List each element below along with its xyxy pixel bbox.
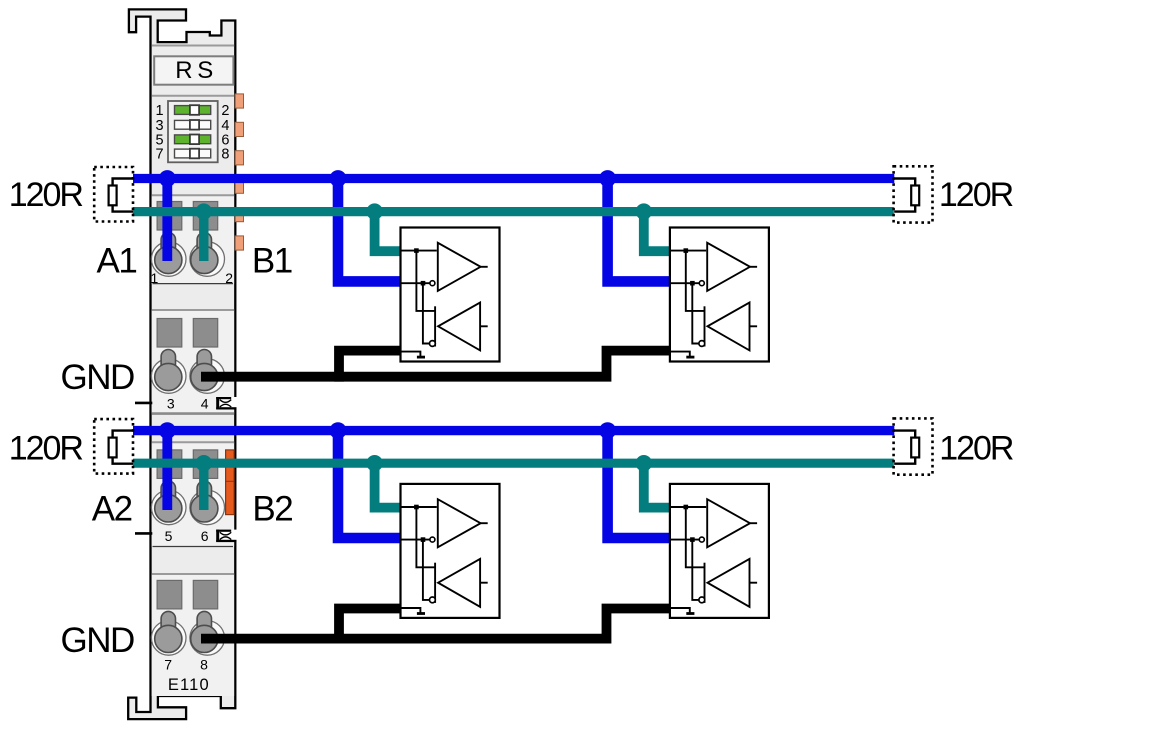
svg-text:1: 1	[155, 103, 163, 119]
svg-text:8: 8	[200, 656, 208, 672]
svg-text:GND: GND	[61, 621, 135, 660]
svg-text:5: 5	[165, 528, 173, 544]
svg-text:R S: R S	[175, 57, 212, 84]
svg-text:A1: A1	[97, 241, 137, 280]
svg-text:2: 2	[225, 270, 233, 286]
svg-text:1: 1	[151, 270, 159, 286]
svg-text:8: 8	[221, 147, 229, 163]
svg-text:7: 7	[155, 147, 163, 163]
svg-text:E110: E110	[168, 676, 210, 694]
svg-text:6: 6	[201, 528, 209, 544]
svg-text:B2: B2	[252, 490, 292, 529]
svg-text:4: 4	[201, 395, 209, 411]
svg-text:120R: 120R	[9, 176, 83, 214]
svg-text:120R: 120R	[939, 176, 1013, 214]
svg-text:3: 3	[167, 395, 175, 411]
svg-text:120R: 120R	[9, 429, 83, 467]
svg-text:7: 7	[164, 656, 172, 672]
svg-text:120R: 120R	[939, 429, 1013, 467]
svg-text:A2: A2	[92, 490, 132, 529]
svg-text:2: 2	[221, 103, 229, 119]
svg-text:B1: B1	[252, 241, 292, 280]
svg-text:GND: GND	[61, 358, 135, 397]
